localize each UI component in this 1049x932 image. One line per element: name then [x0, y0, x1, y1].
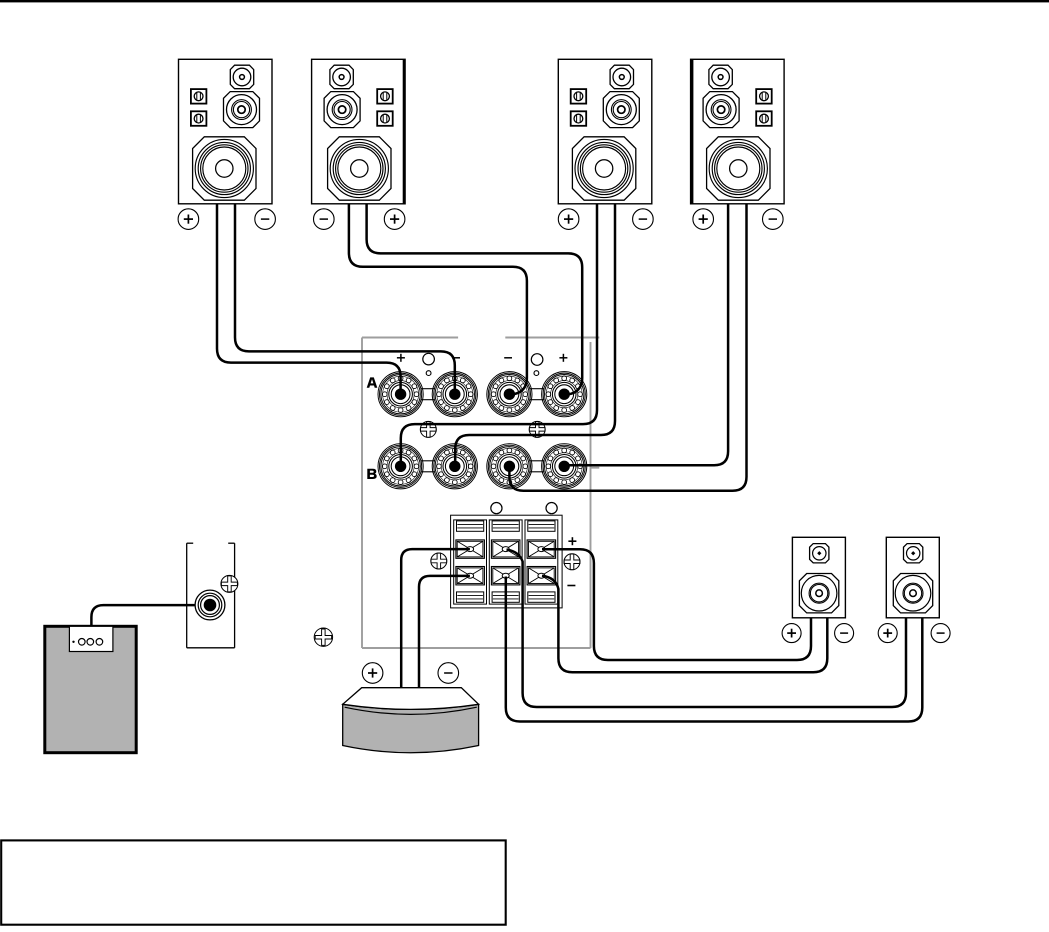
speaker SP3 cabinet [558, 59, 652, 204]
link B3-B4 [529, 460, 544, 462]
clip block + label [568, 540, 576, 542]
wire SP3 plus to post B1 [401, 204, 597, 464]
wire sub amp to RCA jack [91, 605, 208, 627]
subwoofer body [343, 688, 479, 753]
SP4 thick edge [691, 59, 694, 204]
amplifier rear panel outline [362, 338, 599, 649]
binding post A3 [487, 372, 532, 417]
link A3-A4 [529, 388, 544, 390]
top rule bar [0, 0, 1049, 2]
wire clip to subwoofer minus [419, 576, 470, 689]
SP2 terminal - [314, 209, 335, 230]
binding post A2 [432, 372, 477, 417]
polarity label - above A2 [452, 357, 460, 359]
SP3 terminal + [558, 209, 579, 230]
SP4 terminal - [763, 209, 784, 230]
binding post B1 [378, 444, 423, 489]
binding post A1 [378, 372, 423, 417]
clip block mounting holes [491, 503, 502, 514]
wire SP4 plus to post B4 [566, 204, 728, 465]
spring clip + col2 [491, 540, 520, 558]
wire clip to subwoofer plus [401, 549, 470, 689]
subwoofer terminal - [438, 663, 459, 684]
SP5 terminal - [835, 624, 854, 643]
subwoofer amplifier box [45, 626, 136, 752]
spring clip + col3 [527, 540, 556, 558]
screw right of clip block [564, 554, 580, 570]
screw between rows left [420, 421, 436, 437]
polarity label - above A3 [504, 357, 512, 359]
link A1-A2 [421, 388, 435, 390]
caption box (empty) [1, 840, 506, 924]
wire SP4 minus to post B3 [509, 204, 746, 491]
wire SP3 minus to post B2 [455, 204, 615, 464]
wire SP2 plus to post A4 [367, 204, 583, 394]
polarity label + above A1 [397, 357, 405, 359]
subwoofer terminal + [362, 663, 383, 684]
spring clip - col3 [527, 567, 556, 585]
binding post B3 [487, 444, 532, 489]
indicator hole right pair [531, 354, 543, 366]
wire SP2 minus to post A3 [349, 204, 527, 394]
SP1 terminal + [178, 209, 199, 230]
label B [367, 469, 376, 479]
wire clip to SP5 minus [542, 576, 827, 673]
SP3 terminal - [633, 209, 654, 230]
speaker SP2 (front R) cabinet [312, 59, 406, 204]
wire SP1 minus to post A2 [235, 204, 455, 392]
polarity label + above A4 [559, 357, 567, 359]
link B1-B2 [421, 460, 435, 462]
spring clip + col1 [456, 540, 485, 558]
spring clip - col2 [491, 567, 520, 585]
clip block - label [567, 585, 575, 587]
SP5 terminal + [782, 624, 801, 643]
screw on wall plate [221, 575, 238, 592]
spring clip - col1 [456, 567, 485, 585]
screw between rows right [529, 421, 545, 437]
speaker SP5 (surround L) cabinet [792, 537, 845, 618]
wire clip to SP6 minus [506, 577, 923, 722]
wire clip to SP6 plus [507, 550, 907, 708]
speaker SP6 (surround R) cabinet [886, 537, 939, 618]
SP6 terminal - [931, 624, 950, 643]
screw outside panel lower-left [314, 628, 332, 646]
wire clip to SP5 plus [542, 549, 811, 660]
wire SP1 plus to post A1 [217, 204, 401, 392]
RCA jack [195, 590, 225, 620]
SP6 terminal + [878, 624, 897, 643]
binding post A4 [542, 372, 587, 417]
SP2 terminal + [384, 209, 405, 230]
SP2 thick edge [403, 59, 406, 204]
binding post B4 [542, 444, 587, 489]
wall plate [187, 543, 235, 648]
speaker SP1 (front L) cabinet [179, 59, 273, 204]
SP4 terminal + [693, 209, 714, 230]
spring clip terminal block [451, 515, 562, 608]
label A [367, 377, 378, 387]
SP1 terminal - [255, 209, 276, 230]
speaker SP4 cabinet [691, 59, 785, 204]
screw left of clip block [431, 553, 447, 569]
binding post B2 [432, 444, 477, 489]
indicator hole left pair [423, 353, 435, 365]
